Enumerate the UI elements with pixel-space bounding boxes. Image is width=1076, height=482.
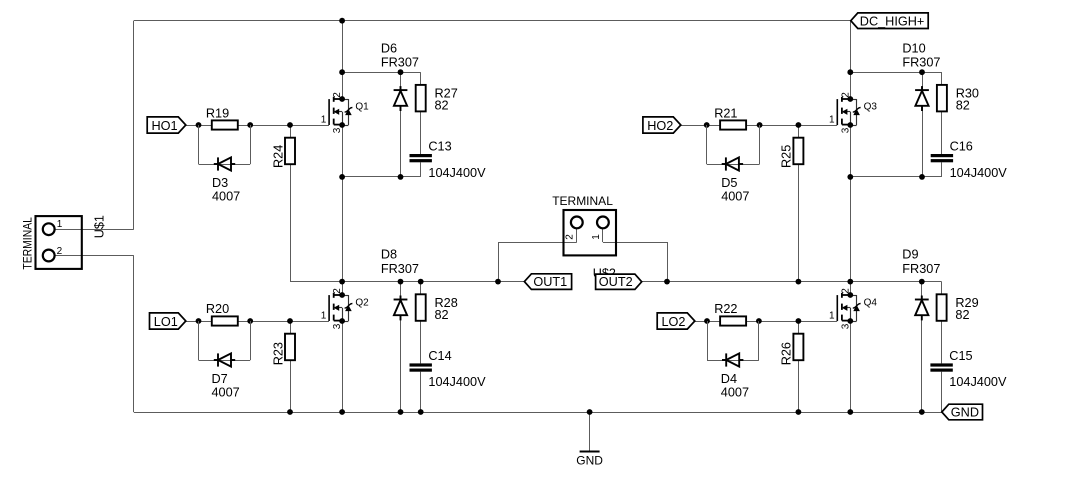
svg-text:R21: R21 (714, 106, 737, 120)
label C16 value 104J400V (950, 166, 1008, 180)
svg-text:3: 3 (332, 127, 343, 133)
svg-text:Q3: Q3 (864, 102, 878, 113)
node R25 bottom on OUT2 (796, 279, 802, 285)
svg-text:104J400V: 104J400V (950, 166, 1008, 180)
svg-text:TERMINAL: TERMINAL (20, 217, 34, 270)
connector U$1 TERMINAL body (36, 216, 82, 269)
label D10 (902, 41, 925, 55)
node R26 bottom (796, 409, 802, 415)
wire HO1 gate row (186, 125, 329, 127)
transistor Q4 (829, 288, 877, 330)
svg-text:HO2: HO2 (647, 119, 673, 133)
diode D3 (214, 157, 235, 170)
label R25 (780, 145, 794, 168)
ground symbol (576, 452, 603, 468)
svg-text:D10: D10 (902, 41, 925, 55)
label R21 (714, 106, 737, 120)
wire GND stub (589, 412, 591, 451)
svg-text:4007: 4007 (721, 386, 749, 400)
svg-text:3: 3 (332, 323, 343, 329)
label D6 (381, 41, 397, 55)
wire Q4 source column to GND (850, 321, 852, 412)
wire Q2 source column to GND (342, 321, 344, 412)
diode D4 (722, 353, 743, 366)
svg-text:R20: R20 (206, 302, 229, 316)
wire D4 bypass loop (707, 321, 759, 361)
label U$1 (93, 215, 107, 238)
wire D10 branch (922, 72, 924, 177)
label D8 (381, 248, 397, 262)
net flag GND (right) (942, 404, 983, 420)
svg-text:82: 82 (955, 308, 969, 322)
node R23 top (287, 318, 293, 324)
svg-text:104J400V: 104J400V (949, 375, 1007, 389)
label C16 (950, 140, 973, 154)
svg-text:104J400V: 104J400V (428, 166, 486, 180)
node snubber TR top tap (847, 69, 853, 75)
wire D5 bypass loop (707, 125, 760, 165)
svg-text:D9: D9 (902, 248, 918, 262)
label R26 (780, 342, 794, 365)
svg-text:R23: R23 (272, 342, 286, 365)
label TERMINAL (U$1 value) (20, 217, 34, 270)
wire mid rail OUT2 net (642, 281, 942, 283)
label R23 (272, 342, 286, 365)
node R26 top (796, 318, 802, 324)
label R30 value 82 (956, 98, 970, 112)
svg-text:R24: R24 (272, 145, 286, 168)
svg-text:82: 82 (435, 98, 449, 112)
wire snubber TR bottom (850, 176, 942, 178)
connector U$1 pin 2 pad (43, 250, 55, 262)
capacitor C13 (410, 154, 432, 162)
svg-text:D8: D8 (381, 248, 397, 262)
svg-text:C13: C13 (428, 140, 451, 154)
label D3 value 4007 (212, 190, 240, 204)
svg-text:R22: R22 (714, 302, 737, 316)
label D3 (212, 176, 228, 190)
svg-text:2: 2 (332, 288, 343, 294)
label C15 value 104J400V (949, 375, 1007, 389)
wire bottom rail (GND net) (134, 412, 942, 414)
svg-text:LO1: LO1 (154, 315, 178, 329)
node snubber TL bottom tap (339, 174, 345, 180)
node HO1 R19 right (247, 122, 253, 128)
net flag LO1 (150, 313, 186, 329)
node snubber TL top tap (339, 69, 345, 75)
svg-text:R19: R19 (206, 106, 229, 120)
label D9 (902, 248, 918, 262)
wire D3 bypass loop (199, 125, 251, 165)
node R23 bottom (287, 409, 293, 415)
wire R26 leg down to GND rail (798, 321, 800, 412)
svg-text:2: 2 (840, 92, 851, 98)
resistor R27 (416, 85, 426, 112)
svg-text:C16: C16 (950, 140, 973, 154)
wire Q1 source column to OUT1 (342, 125, 344, 282)
node R25 top (796, 122, 802, 128)
wire snubber TL top (342, 72, 421, 74)
wire U$2 pin2 lead (498, 228, 577, 242)
node OUT1 / Q2 drain (339, 279, 345, 285)
svg-text:82: 82 (956, 98, 970, 112)
label D7 value 4007 (212, 386, 240, 400)
svg-text:GND: GND (576, 454, 603, 468)
svg-text:4007: 4007 (721, 190, 749, 204)
net flag LO2 (657, 313, 695, 329)
capacitor C16 (931, 154, 953, 162)
node LO2 R22 left (704, 318, 710, 324)
wire snubber TL bottom (342, 176, 421, 178)
wire R30/C16 branch (941, 72, 943, 177)
node LO1 R20 left (196, 318, 202, 324)
label D4 (721, 372, 737, 386)
svg-text:TERMINAL: TERMINAL (552, 194, 613, 208)
net flag HO2 (643, 117, 681, 133)
node D8 top (398, 279, 404, 285)
wire D9 branch (921, 282, 923, 412)
wire R23 leg down to GND rail (290, 321, 292, 412)
wire U$2 right leg to OUT2 (667, 242, 669, 282)
label R20 (206, 302, 229, 316)
svg-text:D7: D7 (212, 372, 228, 386)
diode D6 (394, 86, 408, 111)
node D10 top (919, 69, 925, 75)
node Q2 source on GND rail (339, 409, 345, 415)
svg-text:D4: D4 (721, 372, 737, 386)
label D7 (212, 372, 228, 386)
label C14 value 104J400V (428, 375, 486, 389)
label D10 value FR307 (902, 56, 940, 70)
label R27 (435, 86, 458, 100)
svg-text:LO2: LO2 (662, 315, 686, 329)
transistor Q2 (321, 288, 369, 330)
node U$2 right leg on OUT2 (664, 279, 670, 285)
resistor R20 (212, 316, 238, 325)
resistor R21 (720, 120, 746, 129)
svg-text:FR307: FR307 (902, 56, 940, 70)
label D6 value FR307 (381, 56, 419, 70)
svg-text:1: 1 (829, 114, 835, 125)
wire Q1 drain column (342, 21, 344, 99)
svg-text:3: 3 (840, 323, 851, 329)
svg-text:D6: D6 (381, 41, 397, 55)
label R29 value 82 (955, 308, 969, 322)
svg-text:2: 2 (840, 288, 851, 294)
node D9 bottom (919, 409, 925, 415)
label R22 (714, 302, 737, 316)
node D9 top (919, 279, 925, 285)
svg-text:1: 1 (829, 310, 835, 321)
wire Q2 drain stub (342, 282, 344, 295)
net flag DC_HIGH+ (851, 13, 928, 29)
svg-text:1: 1 (591, 234, 602, 240)
node GND stub on rail (587, 409, 593, 415)
resistor R24 (285, 138, 295, 165)
svg-text:4007: 4007 (212, 190, 240, 204)
node R28 top (418, 279, 424, 285)
resistor R19 (212, 120, 238, 129)
svg-text:Q1: Q1 (355, 102, 369, 113)
transistor Q3 (829, 92, 877, 134)
svg-text:1: 1 (321, 310, 327, 321)
connector U$1 pin 1 pad (43, 223, 55, 235)
resistor R22 (720, 316, 746, 325)
node snubber TR bottom tap (847, 174, 853, 180)
pin number 1 of U$1 (57, 219, 63, 230)
label C13 value 104J400V (428, 166, 486, 180)
wire DC_HIGH+ drop to Q3 drain (850, 21, 852, 99)
label D5 value 4007 (721, 190, 749, 204)
svg-text:2: 2 (57, 246, 63, 257)
svg-text:1: 1 (321, 114, 327, 125)
node D6 top (398, 69, 404, 75)
diode D7 (214, 353, 235, 366)
svg-text:3: 3 (840, 127, 851, 133)
resistor R23 (285, 334, 295, 361)
wire HO2 gate row (681, 125, 837, 127)
wire left rail lower segment (terminal pin2 to bottom rail) (55, 256, 134, 413)
svg-text:OUT2: OUT2 (599, 275, 633, 289)
pin number 1 of U$2 (591, 234, 602, 240)
svg-text:1: 1 (57, 219, 63, 230)
label R28 (435, 296, 458, 310)
diode D8 (394, 296, 408, 321)
wire U$2 left leg to OUT1 (498, 242, 500, 282)
diode D10 (915, 86, 929, 111)
wire D8 branch (400, 282, 402, 412)
svg-text:R26: R26 (780, 342, 794, 365)
node HO2 R21 right (757, 122, 763, 128)
wire Q3 source column to OUT2 (850, 125, 852, 282)
label R30 (956, 86, 979, 100)
node Q4 source on GND rail (847, 409, 853, 415)
wire R27/C13 branch (420, 72, 422, 177)
resistor R26 (793, 334, 803, 361)
svg-text:D3: D3 (212, 176, 228, 190)
node D8 bottom (398, 409, 404, 415)
svg-text:D5: D5 (721, 176, 737, 190)
wire left rail upper segment (terminal pin1 to top rail) (55, 21, 134, 230)
svg-text:U$1: U$1 (93, 215, 107, 238)
svg-text:4007: 4007 (212, 386, 240, 400)
node top rail / Q1 drain (339, 18, 345, 24)
connector U$2 pin 2 pad (571, 217, 583, 229)
svg-text:Q2: Q2 (355, 298, 369, 309)
diode D5 (722, 157, 743, 170)
svg-text:82: 82 (435, 308, 449, 322)
resistor R29 (937, 294, 947, 321)
connector U$2 TERMINAL body (564, 210, 617, 255)
svg-text:GND: GND (951, 406, 979, 420)
wire LO1 gate row (186, 321, 329, 323)
node LO2 R22 right (756, 318, 762, 324)
transistor Q1 (321, 92, 369, 134)
node OUT2 / Q4 drain (847, 279, 853, 285)
net flag HO1 (147, 117, 186, 133)
diode D9 (915, 296, 929, 321)
wire D6 branch (400, 72, 402, 177)
wire Q4 drain stub (850, 282, 852, 295)
pin number 2 of U$1 (57, 246, 63, 257)
resistor R25 (793, 138, 803, 165)
svg-text:FR307: FR307 (381, 262, 419, 276)
label C15 (949, 349, 972, 363)
node D10 bottom (919, 174, 925, 180)
svg-text:DC_HIGH+: DC_HIGH+ (860, 14, 925, 28)
wire R24 leg down to OUT1 rail (290, 125, 292, 282)
svg-text:C14: C14 (428, 349, 451, 363)
wire mid rail OUT1 net (290, 281, 524, 283)
resistor R30 (937, 85, 947, 112)
svg-text:HO1: HO1 (152, 119, 178, 133)
wire LO2 gate row (695, 321, 837, 323)
label R24 (272, 145, 286, 168)
node HO1 R19 left (196, 122, 202, 128)
capacitor C14 (410, 363, 432, 371)
svg-text:R25: R25 (780, 145, 794, 168)
label R19 (206, 106, 229, 120)
net flag OUT1 (524, 274, 571, 290)
label D4 value 4007 (721, 386, 749, 400)
wire top rail (DC_HIGH+ net) (134, 20, 851, 22)
svg-text:2: 2 (564, 234, 575, 240)
label TERMINAL (U$2 value) (552, 194, 613, 208)
capacitor C15 (930, 363, 952, 371)
label D8 value FR307 (381, 262, 419, 276)
label R27 value 82 (435, 98, 449, 112)
label R28 value 82 (435, 308, 449, 322)
svg-text:OUT1: OUT1 (533, 275, 567, 289)
node U$2 left leg on OUT1 (495, 279, 501, 285)
node D6 bottom (398, 174, 404, 180)
connector U$2 pin 1 pad (597, 217, 609, 229)
label C13 (428, 140, 451, 154)
net flag OUT2 (596, 274, 642, 289)
svg-text:FR307: FR307 (902, 262, 940, 276)
svg-text:Q4: Q4 (864, 298, 878, 309)
wire D7 bypass loop (199, 321, 251, 361)
label C14 (428, 349, 451, 363)
svg-text:FR307: FR307 (381, 56, 419, 70)
label D5 (721, 176, 737, 190)
wire R28/C14 branch (420, 282, 422, 412)
pin number 2 of U$2 (564, 234, 575, 240)
node R24 top (287, 122, 293, 128)
resistor R28 (416, 294, 426, 321)
wire U$2 pin1 lead (603, 228, 668, 242)
wire R29/C15 branch (941, 282, 943, 412)
svg-text:104J400V: 104J400V (428, 375, 486, 389)
node HO2 R21 left (704, 122, 710, 128)
label D9 value FR307 (902, 262, 940, 276)
svg-text:C15: C15 (949, 349, 972, 363)
node LO1 R20 right (247, 318, 253, 324)
label R29 (955, 296, 978, 310)
node C14 bottom (418, 409, 424, 415)
wire R25 leg down to OUT2 rail (798, 125, 800, 282)
wire snubber TR top (850, 72, 942, 74)
svg-text:2: 2 (332, 92, 343, 98)
label U$2 (593, 266, 616, 280)
